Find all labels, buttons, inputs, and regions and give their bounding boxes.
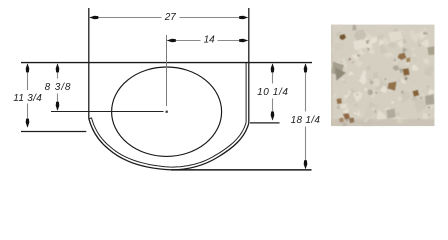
front curve outer [89, 119, 249, 170]
extension line 11 3/4 [21, 131, 86, 133]
dimension 11 3/4 text [13, 93, 42, 104]
top edge line with extension [21, 62, 312, 64]
dimension 10 1/4 text [257, 87, 288, 98]
svg-text:27: 27 [164, 12, 177, 23]
gray chip right edge [428, 46, 435, 55]
dimension 11 3/4 line [26, 63, 30, 127]
light triangles top-right [388, 31, 403, 42]
dimension 14 text [204, 35, 216, 46]
left edge line with extension up [88, 8, 90, 119]
dimension 8 3/8 line [56, 63, 60, 110]
brown cluster right-center [398, 53, 407, 61]
brown speck left-bottom [337, 98, 343, 104]
olive-gray triangle left edge [331, 62, 344, 76]
gray triangle left lower [335, 68, 346, 81]
gray round chip top-left [354, 30, 366, 41]
svg-text:18 1/4: 18 1/4 [291, 115, 321, 126]
gray chip bottom-center-left [387, 109, 397, 119]
brown chip lower right [413, 90, 420, 97]
dimension 14 line [167, 39, 248, 43]
material swatch (terrazzo sample) [329, 19, 438, 131]
svg-text:11 3/4: 11 3/4 [13, 93, 42, 104]
svg-text:14: 14 [204, 35, 216, 46]
dimension 27 line [89, 16, 248, 20]
dark brown chip top-left [340, 34, 347, 40]
bowl vertical centerline [166, 35, 168, 106]
bowl horizontal centerline [51, 111, 164, 113]
extension line 10 1/4 [250, 122, 280, 124]
bottom shading [331, 119, 435, 126]
dimension 27 text [164, 12, 177, 23]
gray chip right bottom [425, 94, 435, 105]
right edge line with extension up [248, 8, 250, 123]
svg-text:8 3/8: 8 3/8 [45, 82, 72, 93]
dimension 10 1/4 line [271, 63, 275, 120]
dimension 8 3/8 text [45, 82, 72, 93]
svg-text:10 1/4: 10 1/4 [257, 87, 288, 98]
extension line 18 1/4 bottom [171, 169, 312, 171]
reddish cluster bottom-left [343, 113, 350, 120]
front edge band inner line [89, 63, 246, 167]
brown chip center-right lower [403, 68, 410, 76]
dimension 18 1/4 text [291, 115, 321, 126]
sink bowl ellipse [112, 67, 222, 156]
light chip top-middle [353, 39, 365, 51]
brown triangle center-bottom-left [388, 82, 397, 91]
bowl center mark [166, 111, 168, 113]
dimension 18 1/4 line [304, 63, 308, 169]
